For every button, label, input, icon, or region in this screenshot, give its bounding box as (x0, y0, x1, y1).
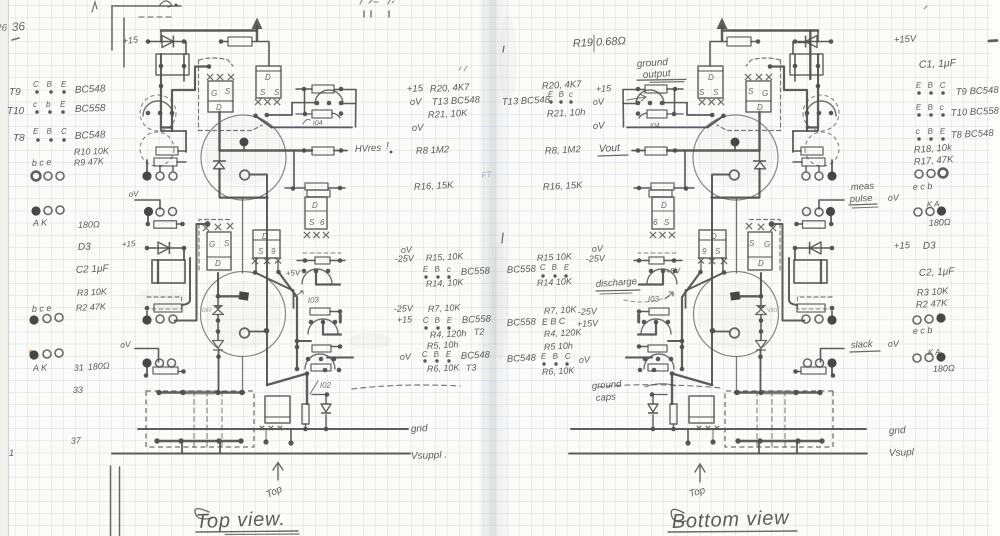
svg-text:R7, 10K: R7, 10K (544, 304, 578, 316)
svg-text:+15: +15 (397, 314, 414, 325)
svg-text:+15V: +15V (893, 33, 918, 46)
svg-text:oV: oV (400, 351, 413, 362)
svg-text:BC558: BC558 (461, 265, 491, 278)
wire step 2 (161, 86, 172, 128)
svg-text:R2 47K: R2 47K (915, 298, 948, 311)
svg-text:+15: +15 (894, 240, 911, 252)
svg-text:Vsuppl .: Vsuppl . (411, 450, 448, 462)
svg-text:6: 6 (320, 218, 325, 227)
svg-text:D: D (711, 232, 717, 241)
wire (249, 331, 266, 333)
svg-text:S: S (309, 218, 315, 227)
center fold shadow (478, 0, 512, 536)
pads ecb right (915, 170, 923, 178)
dashed wire 2 (145, 308, 182, 310)
wire (183, 54, 185, 81)
svg-text:R8, 1M2: R8, 1M2 (545, 144, 582, 157)
svg-text:R16, 15K: R16, 15K (543, 180, 584, 193)
svg-text:R21, 10K: R21, 10K (428, 108, 469, 121)
svg-text:S: S (715, 247, 721, 256)
svg-text:D: D (262, 232, 268, 241)
wire long (272, 126, 353, 128)
svg-text:D: D (758, 259, 764, 268)
svg-text:output: output (642, 68, 672, 81)
pins (315, 101, 320, 106)
component rectangle upper-left (156, 54, 189, 75)
svg-text:R2 47K: R2 47K (76, 301, 107, 313)
resistor (310, 308, 330, 315)
wire step (267, 103, 292, 115)
svg-text:b c e: b c e (32, 303, 52, 314)
node (263, 439, 268, 444)
svg-text:R6, 10K: R6, 10K (427, 362, 461, 374)
svg-text:caps: caps (595, 392, 616, 404)
wire (330, 260, 345, 262)
svg-text:S: S (699, 88, 705, 97)
resistor (312, 345, 331, 352)
svg-text:S: S (748, 87, 754, 96)
svg-text:6: 6 (653, 218, 658, 227)
arrow mark 2 (665, 292, 673, 299)
transistor package Q2 D-SS (256, 66, 281, 98)
svg-text:+5V: +5V (286, 268, 302, 278)
arrow Top right (695, 464, 705, 482)
svg-text:9: 9 (271, 247, 276, 256)
dashed transistor outline 2 (140, 132, 174, 166)
svg-text:R20, 4K7: R20, 4K7 (430, 82, 471, 95)
wire +15 row2 (147, 247, 184, 249)
wire (292, 102, 315, 104)
wire (285, 187, 305, 189)
wire (332, 113, 340, 118)
dashed wire (147, 296, 180, 298)
transistor dome T13 (315, 90, 343, 104)
svg-text:slack: slack (851, 339, 874, 351)
node (265, 113, 270, 118)
svg-text:R5 10h: R5 10h (544, 340, 574, 352)
svg-text:C: C (540, 263, 547, 272)
wire (293, 290, 295, 308)
terminal + square (238, 291, 249, 300)
svg-text:C: C (565, 352, 572, 361)
zener 2 (open) (213, 341, 224, 349)
svg-text:BC548: BC548 (461, 349, 491, 362)
resistor R8 (312, 147, 334, 155)
wire (157, 260, 159, 283)
wire (296, 113, 312, 115)
pads AK (31, 206, 40, 215)
svg-text:D: D (708, 73, 714, 82)
arrow up (output) (256, 26, 258, 41)
wire (293, 151, 295, 188)
dashed DIP outline (146, 391, 254, 447)
label I02 with pointer (310, 381, 318, 394)
wire (161, 128, 186, 131)
svg-text:R21, 10h: R21, 10h (547, 107, 586, 120)
svg-text:D: D (312, 201, 318, 210)
wire +15 diode row (148, 41, 184, 43)
pad cluster 2 (144, 207, 153, 216)
svg-text:T9: T9 (9, 87, 21, 98)
wire (296, 88, 312, 90)
wire rail down + corner right (220, 169, 268, 198)
dashed outline loop (199, 58, 233, 66)
wire oV link (135, 349, 159, 363)
svg-text:C: C (61, 127, 67, 136)
svg-text:R4, 120h: R4, 120h (430, 328, 467, 340)
svg-text:1: 1 (9, 448, 14, 458)
pin marks x (260, 426, 264, 430)
svg-text:I03: I03 (308, 295, 320, 305)
zener pair 1 (216, 294, 221, 299)
wire (334, 90, 356, 128)
svg-text:R6, 10K: R6, 10K (542, 365, 576, 377)
svg-text:C1, 1μF: C1, 1μF (919, 57, 957, 71)
svg-text:R15 10K: R15 10K (537, 251, 573, 263)
wire (334, 150, 347, 152)
terminal + (filled) (240, 138, 249, 147)
wire (297, 340, 311, 342)
svg-text:G: G (764, 240, 770, 249)
svg-text:+15: +15 (122, 239, 137, 249)
pads (29, 315, 38, 324)
dashed transistor outline (140, 95, 176, 131)
component rectangle lower-left (152, 260, 185, 283)
wire (221, 41, 228, 43)
node (146, 39, 151, 44)
svg-text:C: C (423, 316, 430, 325)
svg-text:31: 31 (73, 362, 84, 373)
dashed inter-page link left (352, 385, 460, 389)
wire diag from can (279, 272, 298, 369)
resistor R mid1 (156, 147, 178, 155)
pads (142, 358, 151, 367)
svg-text:G: G (209, 240, 215, 249)
wire (146, 311, 148, 315)
wire leg from package (217, 273, 219, 296)
dashed wire corner (199, 220, 230, 271)
wire L 2 (323, 322, 341, 335)
svg-text:C: C (940, 81, 947, 90)
pads KA right (914, 208, 922, 216)
wire from - terminal (250, 175, 268, 331)
svg-text:I03: I03 (648, 294, 660, 304)
pin marks x (207, 74, 213, 80)
svg-text:T3: T3 (466, 362, 477, 373)
pin marks x (304, 232, 310, 238)
resistor R20 (312, 85, 334, 93)
node (339, 111, 344, 116)
bottom margin verticals (110, 466, 112, 536)
svg-text:+15: +15 (122, 34, 139, 46)
svg-text:R16, 15K: R16, 15K (414, 180, 455, 193)
pins (306, 357, 311, 362)
svg-text:180Ω: 180Ω (87, 360, 110, 372)
wire thin (242, 198, 244, 273)
svg-text:gnd: gnd (889, 425, 907, 437)
svg-text:e c b: e c b (913, 325, 933, 336)
node (291, 186, 296, 191)
main horizontal wire (220, 149, 313, 151)
svg-text:T10: T10 (7, 106, 25, 117)
node dark (205, 221, 211, 227)
nodes (154, 438, 159, 443)
svg-text:D: D (757, 103, 763, 112)
wire stub (243, 146, 245, 151)
wire (312, 394, 327, 396)
svg-text:180Ω: 180Ω (929, 217, 952, 228)
dashed dividers (193, 391, 195, 447)
wire (178, 150, 186, 152)
pads KA right 2 (913, 354, 921, 362)
wire (327, 357, 353, 359)
svg-text:oV: oV (888, 192, 901, 203)
transistor package D-56 (305, 197, 327, 229)
svg-text:meas: meas (851, 181, 875, 193)
svg-text:G: G (211, 89, 217, 98)
svg-text:c: c (569, 90, 574, 99)
pads (142, 315, 151, 324)
svg-text:D6V: D6V (202, 308, 212, 314)
svg-text:+15: +15 (407, 83, 424, 95)
node (207, 64, 212, 69)
svg-text:R10 10K: R10 10K (74, 146, 110, 157)
wire V right of rect (182, 258, 190, 305)
pin marks x (252, 258, 258, 264)
squiggle (645, 384, 676, 387)
svg-text:-25V: -25V (395, 253, 416, 264)
svg-text:S: S (749, 239, 755, 248)
diode D gnd (321, 404, 331, 412)
svg-text:I02: I02 (320, 381, 332, 390)
resistor (311, 364, 331, 371)
arrow Top (273, 463, 283, 481)
transistor package Q3 G-S (207, 232, 231, 270)
pins (302, 269, 307, 274)
node (145, 306, 150, 311)
svg-text:c: c (447, 265, 452, 274)
svg-text:R15, 10K: R15, 10K (426, 251, 465, 263)
label I03 with arrow (294, 291, 303, 297)
wire (252, 42, 269, 67)
transistor dome T11 (143, 101, 173, 116)
wire (305, 424, 307, 429)
svg-text:36: 36 (11, 19, 26, 34)
stubs (181, 443, 183, 454)
svg-text:D: D (215, 259, 221, 268)
wire step (172, 67, 209, 132)
dashed mark (139, 16, 175, 18)
wire diag junction (267, 374, 307, 405)
transistor dome 2 (308, 319, 338, 334)
tick mark (459, 66, 467, 71)
svg-text:37: 37 (70, 435, 82, 446)
notebook right page edge (991, 0, 1000, 536)
svg-text:C: C (33, 80, 39, 89)
pin marks x (203, 225, 209, 231)
wire (177, 161, 186, 163)
wire leg DS2 (255, 258, 257, 273)
svg-text:A K: A K (32, 362, 49, 373)
svg-text:+5V: +5V (666, 266, 682, 276)
node (264, 328, 270, 334)
svg-text:c: c (916, 127, 921, 136)
wire (304, 90, 306, 114)
svg-text:T8 BC548: T8 BC548 (951, 128, 995, 141)
svg-text:BC548: BC548 (75, 83, 107, 96)
node (253, 270, 258, 275)
svg-text:C2, 1μF: C2, 1μF (919, 266, 956, 279)
wire diode feed (160, 31, 162, 42)
wire stem (147, 216, 149, 222)
pads AK2 (29, 350, 38, 359)
svg-text:S: S (274, 88, 280, 97)
wire (328, 187, 345, 189)
svg-text:R3 10K: R3 10K (77, 286, 108, 298)
diag shallow from top (255, 273, 292, 291)
wire oV feed (135, 200, 160, 209)
svg-text:S: S (225, 87, 231, 96)
wire patch right top rail (809, 31, 811, 79)
transistor dome 3 (305, 354, 335, 369)
wire (266, 331, 268, 385)
Vsupply bus (112, 453, 410, 455)
resistor (305, 183, 328, 190)
wire L (316, 271, 340, 285)
resistor (307, 190, 330, 197)
dash mark right (989, 39, 997, 42)
squiggle top (160, 1, 171, 7)
resistor vertical (302, 404, 309, 424)
dashed inter-page link right (598, 385, 723, 388)
wire (159, 166, 161, 171)
wire (325, 415, 327, 429)
wire (325, 395, 327, 405)
svg-text:Vsupl: Vsupl (889, 447, 915, 459)
wire bar (339, 315, 342, 322)
svg-text:D3: D3 (78, 242, 92, 253)
wire (146, 160, 148, 171)
wire (297, 260, 315, 262)
svg-text:C: C (422, 350, 429, 359)
wire (290, 429, 292, 443)
svg-text:9: 9 (702, 247, 707, 256)
svg-text:A K: A K (32, 217, 49, 228)
svg-text:33: 33 (73, 385, 83, 395)
svg-text:D: D (265, 73, 271, 82)
svg-text:C2 1μF: C2 1μF (76, 263, 110, 276)
wire (178, 371, 183, 373)
svg-text:R14 10K: R14 10K (537, 276, 573, 288)
large can component (top) (201, 115, 286, 200)
svg-text:180Ω: 180Ω (933, 363, 956, 374)
zener diode in can (points up) (219, 151, 221, 162)
svg-text:G: G (762, 89, 768, 98)
pin marks x (255, 99, 261, 105)
svg-text:D: D (661, 201, 667, 210)
dashed stub (181, 297, 183, 309)
svg-text:R4, 120K: R4, 120K (544, 327, 583, 339)
gnd bus (138, 428, 408, 430)
resistor top (228, 37, 252, 46)
resistor (315, 257, 330, 264)
mirrored circuit (bottom view, right page) (569, 18, 867, 454)
svg-text:-25V: -25V (394, 303, 415, 314)
bus row 1 (158, 391, 244, 394)
wire (218, 295, 240, 297)
svg-text:BC548: BC548 (507, 352, 537, 365)
svg-text:S: S (713, 88, 719, 97)
wire top rail (161, 29, 257, 31)
svg-text:180Ω: 180Ω (78, 219, 100, 230)
resistor R21 (312, 110, 332, 118)
svg-text:S: S (258, 247, 264, 256)
svg-text:D: D (216, 103, 222, 112)
terminal - (open) (240, 170, 250, 180)
svg-text:oV: oV (128, 189, 139, 199)
svg-text:S: S (260, 88, 266, 97)
resistor R lower (154, 221, 177, 228)
svg-text:26: 26 (0, 23, 8, 34)
svg-text:b: b (46, 100, 51, 109)
small arrow top-left (92, 2, 97, 12)
dashed wire (303, 252, 341, 254)
svg-text:HVres: HVres (355, 143, 382, 155)
svg-text:e c b: e c b (913, 181, 933, 192)
nodes (302, 148, 307, 153)
svg-text:+15: +15 (596, 83, 613, 94)
node (305, 371, 310, 376)
bus row 2 (158, 440, 242, 443)
svg-text:Bottom view: Bottom view (671, 507, 790, 533)
large can component (bottom) (201, 272, 286, 357)
wire (185, 131, 187, 152)
wire thin (242, 357, 244, 391)
arrow mark (627, 94, 646, 101)
top center marks (364, 11, 389, 17)
svg-text:c: c (33, 100, 37, 109)
node (338, 186, 343, 191)
node (216, 354, 221, 359)
transistor package Q1 G-S (208, 81, 233, 112)
wire stem (146, 367, 148, 375)
wire (323, 368, 328, 373)
pad A (142, 171, 151, 180)
orange speck (29, 350, 33, 354)
diode D1 (162, 36, 173, 48)
frame mark 2 (123, 18, 125, 67)
small mark (924, 6, 927, 9)
transistor dome (302, 269, 332, 284)
svg-text:-25V: -25V (586, 253, 607, 264)
wire (344, 103, 356, 105)
svg-text:E: E (61, 80, 67, 89)
pad (156, 172, 164, 180)
transistor package Q4 D-S9 (253, 230, 280, 258)
svg-text:c: c (940, 103, 945, 112)
svg-text:BC558: BC558 (75, 103, 106, 115)
wire (218, 350, 220, 392)
dashed arc (624, 294, 674, 302)
svg-text:BC548: BC548 (75, 129, 107, 142)
svg-text:BC558: BC558 (507, 316, 537, 329)
wire (177, 223, 183, 225)
svg-text:E B C: E B C (542, 316, 566, 327)
resistor (153, 367, 178, 374)
wire (185, 42, 187, 55)
wire (331, 346, 340, 348)
svg-text:oV: oV (593, 96, 606, 107)
